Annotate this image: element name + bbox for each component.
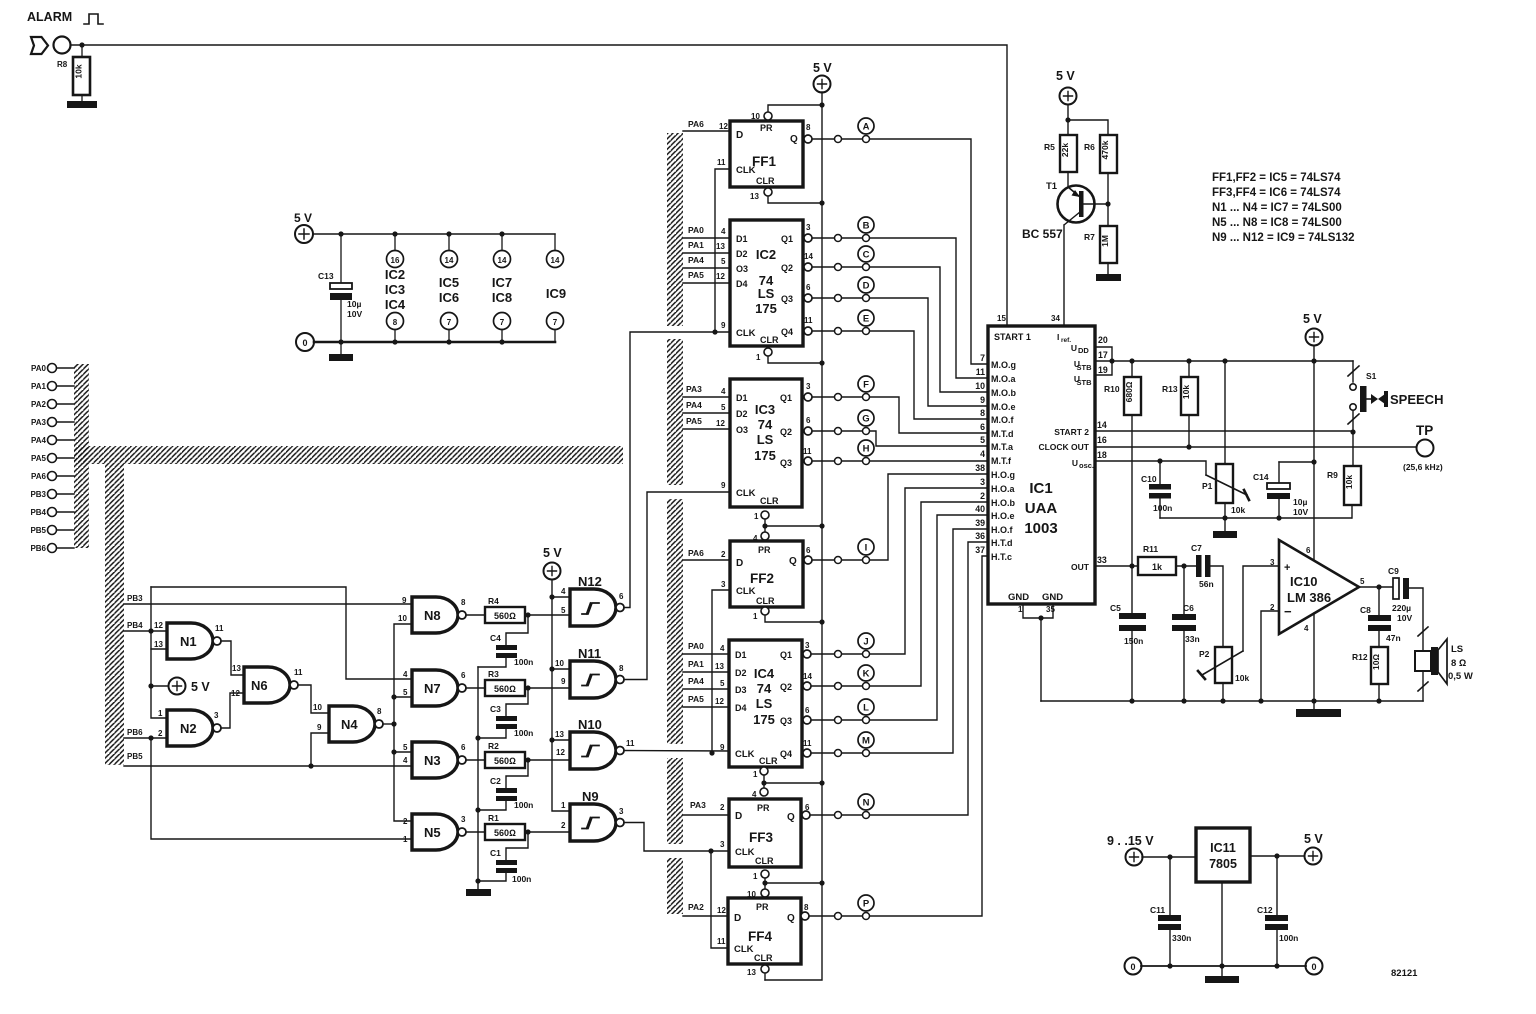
svg-text:R12: R12: [1352, 652, 1368, 662]
wire IC11 output to 5V: [1250, 855, 1305, 857]
wire psu ground rail: [1141, 965, 1306, 967]
svg-text:IC11: IC11: [1210, 841, 1236, 855]
svg-text:220µ: 220µ: [1392, 603, 1411, 613]
svg-text:GND: GND: [1008, 592, 1029, 603]
svg-text:CLK: CLK: [736, 165, 756, 176]
svg-text:17: 17: [1098, 350, 1108, 360]
pin circles IC2/IC3/IC4 supply: [385, 234, 406, 342]
junction C1 ground: [475, 878, 480, 883]
node A: [804, 118, 988, 364]
wire R13 to CLOCK OUT line: [1188, 415, 1190, 447]
svg-text:R10: R10: [1104, 384, 1120, 394]
junction FF2 CLR: [819, 619, 824, 624]
svg-text:N6: N6: [251, 678, 268, 693]
wire FF2 CLR to 5V: [765, 615, 822, 622]
svg-text:CLOCK OUT: CLOCK OUT: [1038, 442, 1089, 452]
ground below capacitor bus: [466, 889, 491, 896]
svg-text:CLK: CLK: [736, 488, 756, 499]
svg-text:PB4: PB4: [127, 621, 143, 630]
node I: [804, 474, 988, 564]
svg-text:PR: PR: [758, 545, 771, 555]
wire FF3 CLK to FF4 CLK: [711, 851, 729, 948]
capacitor C4: [478, 615, 533, 667]
svg-text:4: 4: [980, 449, 985, 459]
svg-text:11: 11: [215, 624, 224, 633]
nand gate N8: [398, 596, 466, 633]
pin circle FF3 CLR pin1: [761, 870, 769, 878]
svg-text:7: 7: [553, 318, 558, 327]
wire PA3 to IC3 D1: [683, 396, 730, 398]
svg-text:M.T.a: M.T.a: [991, 442, 1014, 452]
connector PA0: [31, 364, 74, 374]
svg-text:16: 16: [1097, 435, 1107, 445]
svg-text:1: 1: [756, 353, 761, 362]
wire input to IC11: [1142, 856, 1196, 858]
svg-text:PA6: PA6: [688, 548, 704, 558]
svg-text:STB: STB: [1077, 363, 1093, 372]
svg-text:14: 14: [445, 256, 454, 265]
junction N12 pin4: [549, 594, 554, 599]
svg-text:1: 1: [403, 835, 408, 844]
svg-text:4: 4: [403, 670, 408, 679]
wire R2 to N10 pin12: [525, 759, 570, 761]
resistor R7: [1084, 226, 1117, 263]
svg-text:IC9: IC9: [546, 286, 566, 301]
svg-text:560Ω: 560Ω: [494, 828, 516, 838]
svg-text:M.O.e: M.O.e: [991, 402, 1016, 412]
pin circle FF2 PR pin4: [761, 532, 769, 540]
svg-text:175: 175: [753, 712, 775, 727]
connector PB4: [30, 508, 74, 518]
svg-text:PR: PR: [757, 803, 770, 813]
svg-text:D1: D1: [736, 393, 748, 403]
junction N4 out: [391, 721, 396, 726]
junction IC4 CLR / FF3 PR: [819, 780, 824, 785]
register IC2: [716, 220, 813, 346]
svg-text:9: 9: [317, 723, 322, 732]
junction 5V/USTB: [1311, 358, 1316, 363]
wire N6 out to N4 pin10: [298, 685, 329, 713]
pin circle FF2 CLR pin1: [761, 607, 769, 615]
svg-text:12: 12: [719, 122, 728, 131]
svg-text:C13: C13: [318, 271, 334, 281]
svg-text:ref.: ref.: [1061, 337, 1071, 344]
junction PB6: [148, 735, 153, 740]
svg-text:6: 6: [805, 706, 810, 715]
junction C8 top: [1376, 584, 1381, 589]
svg-text:3: 3: [980, 477, 985, 487]
svg-text:9: 9: [402, 596, 407, 605]
wire FF1 CLR to 5V: [768, 196, 822, 203]
svg-text:Q3: Q3: [781, 294, 793, 304]
svg-text:F: F: [863, 380, 869, 391]
speaker connector slash bottom: [1418, 682, 1428, 691]
capacitor C8: [1360, 587, 1401, 647]
svg-text:1M: 1M: [1100, 235, 1110, 247]
svg-text:4: 4: [720, 644, 725, 653]
svg-text:D: D: [736, 558, 743, 569]
svg-text:3: 3: [720, 840, 725, 849]
svg-text:D3: D3: [735, 685, 747, 695]
svg-text:J: J: [863, 637, 868, 648]
wire OUT pin33 line: [1095, 565, 1138, 567]
junction IC4 CLR/FF3 PR: [761, 780, 766, 785]
wire IC1 GND pins to rail: [1023, 604, 1053, 701]
switch S1: [1348, 361, 1443, 432]
svg-text:Q3: Q3: [780, 458, 792, 468]
svg-text:4: 4: [721, 387, 726, 396]
svg-text:9: 9: [721, 321, 726, 330]
wire PA6 to FF1 D: [683, 130, 730, 132]
pin circle FF4 PR pin10: [761, 889, 769, 897]
junction IC2 CLR: [819, 360, 824, 365]
svg-text:N: N: [863, 798, 870, 809]
svg-text:13: 13: [555, 730, 564, 739]
wire PB4 to N1 pin12: [124, 630, 167, 632]
wire PA0 to IC2 D1: [683, 237, 730, 239]
svg-text:4: 4: [721, 227, 726, 236]
svg-text:11: 11: [976, 367, 985, 377]
svg-text:37: 37: [975, 545, 985, 555]
svg-text:6: 6: [461, 671, 466, 680]
svg-text:5: 5: [980, 435, 985, 445]
svg-text:LS: LS: [757, 432, 774, 447]
svg-text:IC7: IC7: [492, 275, 512, 290]
svg-text:Q2: Q2: [780, 682, 792, 692]
svg-text:osc.: osc.: [1079, 461, 1094, 470]
node J: [803, 488, 988, 658]
note text equivalences: [1212, 172, 1355, 244]
ALARM connector arrow: [31, 37, 48, 54]
svg-text:LM 386: LM 386: [1287, 590, 1331, 605]
svg-text:IC3: IC3: [385, 282, 405, 297]
svg-text:9: 9: [721, 481, 726, 490]
node C: [804, 246, 988, 392]
svg-text:M.O.f: M.O.f: [991, 415, 1014, 425]
svg-text:33: 33: [1097, 555, 1107, 565]
svg-text:10: 10: [975, 381, 985, 391]
svg-text:D4: D4: [736, 279, 748, 289]
svg-text:H.O.e: H.O.e: [991, 511, 1015, 521]
svg-text:H.O.b: H.O.b: [991, 498, 1016, 508]
junction psu rail C11: [1167, 963, 1172, 968]
svg-text:G: G: [862, 414, 869, 425]
svg-text:3: 3: [806, 223, 811, 232]
capacitor C9 (electrolytic): [1388, 566, 1412, 623]
register IC3: [716, 379, 812, 507]
svg-text:10: 10: [555, 659, 564, 668]
svg-text:N2: N2: [180, 721, 197, 736]
flip-flop FF2: [721, 541, 811, 607]
IC1 left pin labels: [991, 360, 1016, 562]
wire audio ground rail: [1041, 700, 1423, 702]
junction psu rail C12: [1274, 963, 1279, 968]
junction USTB/R10: [1129, 358, 1134, 363]
svg-text:D1: D1: [735, 650, 747, 660]
svg-text:1003: 1003: [1024, 520, 1057, 537]
svg-text:N5 ... N8 = IC8 = 74LS00: N5 ... N8 = IC8 = 74LS00: [1212, 217, 1342, 229]
svg-text:Q2: Q2: [780, 427, 792, 437]
svg-text:H.T.c: H.T.c: [991, 552, 1012, 562]
junction C14/5V line: [1311, 459, 1316, 464]
svg-text:100n: 100n: [1153, 503, 1172, 513]
svg-text:CLR: CLR: [754, 953, 773, 963]
svg-text:560Ω: 560Ω: [494, 684, 516, 694]
wire R6 to R7 via T1 base: [1107, 173, 1109, 226]
svg-text:12: 12: [231, 689, 240, 698]
svg-text:PR: PR: [756, 902, 769, 912]
svg-text:M.T.f: M.T.f: [991, 456, 1012, 466]
node L: [803, 515, 988, 724]
svg-text:0: 0: [1130, 962, 1135, 972]
junction C14 bottom: [1276, 515, 1281, 520]
test point TP: [1403, 423, 1443, 472]
node D: [804, 277, 988, 406]
transistor T1 BC557: [1022, 181, 1108, 326]
svg-text:IC1: IC1: [1029, 480, 1052, 497]
svg-text:9: 9: [561, 677, 566, 686]
svg-text:GND: GND: [1042, 592, 1063, 603]
connector PA5: [31, 454, 74, 464]
junction riser N7.5: [391, 694, 396, 699]
svg-text:CLR: CLR: [755, 856, 774, 866]
svg-text:5: 5: [1360, 577, 1365, 586]
svg-text:10µ: 10µ: [347, 299, 361, 309]
svg-text:PB3: PB3: [127, 594, 143, 603]
capacitor C5: [1110, 566, 1146, 701]
junction R13/CLOCK OUT: [1186, 444, 1191, 449]
svg-text:8 Ω: 8 Ω: [1451, 658, 1466, 669]
svg-text:C2: C2: [490, 776, 501, 786]
wire R4 to N12 pin5: [525, 614, 570, 616]
junction IC3 CLR / FF2 PR: [819, 523, 824, 528]
wire PA6 to FF2 D: [683, 559, 730, 561]
wire IC1 pins 20/17/19 bracket: [1095, 347, 1112, 375]
svg-text:12: 12: [716, 272, 725, 281]
wire FF4 CLR to 5V rail bottom: [764, 973, 766, 980]
svg-text:C3: C3: [490, 704, 501, 714]
svg-text:33n: 33n: [1185, 634, 1200, 644]
svg-text:PA5: PA5: [31, 454, 47, 463]
svg-text:7: 7: [447, 318, 452, 327]
svg-text:38: 38: [975, 463, 985, 473]
junction 5V gate: [148, 683, 153, 688]
svg-text:−: −: [1284, 604, 1292, 619]
svg-text:PB6: PB6: [30, 544, 46, 553]
node E: [804, 310, 988, 419]
svg-text:DD: DD: [1078, 346, 1089, 355]
svg-text:B: B: [863, 221, 870, 232]
connector PA1: [31, 382, 74, 392]
5V output terminal: [1304, 832, 1323, 865]
svg-text:N5: N5: [424, 825, 441, 840]
svg-text:10k: 10k: [1181, 385, 1191, 399]
wire feedback net to N7 pin4: [151, 587, 412, 679]
svg-text:C9: C9: [1388, 566, 1399, 576]
svg-text:5 V: 5 V: [191, 680, 210, 694]
pin circle FF1 PR pin10: [764, 112, 772, 120]
node N: [802, 542, 988, 819]
svg-text:8: 8: [619, 664, 624, 673]
svg-text:14: 14: [1097, 420, 1107, 430]
svg-text:PA0: PA0: [688, 225, 704, 235]
junction USTB/R13: [1186, 358, 1191, 363]
resistor R4: [485, 596, 525, 623]
svg-text:12: 12: [716, 419, 725, 428]
bus hatched band middle vertical: [667, 133, 683, 914]
svg-text:100n: 100n: [1279, 933, 1298, 943]
ground below audio rail: [1313, 701, 1315, 709]
svg-text:START 2: START 2: [1054, 427, 1089, 437]
junction C6 top: [1181, 563, 1186, 568]
pin circle FF4 CLR pin13: [761, 965, 769, 973]
svg-text:N7: N7: [424, 681, 441, 696]
svg-text:PA1: PA1: [688, 240, 704, 250]
pin circles IC5/IC6 supply: [439, 234, 459, 342]
svg-text:6: 6: [619, 592, 624, 601]
svg-text:LS: LS: [756, 696, 773, 711]
svg-text:11: 11: [803, 447, 812, 456]
svg-text:5: 5: [721, 257, 726, 266]
svg-text:Q: Q: [787, 812, 795, 823]
svg-text:R6: R6: [1084, 142, 1095, 152]
svg-text:SPEECH: SPEECH: [1390, 392, 1443, 407]
svg-text:U: U: [1071, 343, 1077, 353]
svg-text:11: 11: [803, 739, 812, 748]
svg-text:N9 ... N12 = IC9 = 74LS132: N9 ... N12 = IC9 = 74LS132: [1212, 232, 1355, 244]
resistor R12: [1352, 647, 1388, 701]
svg-text:PB4: PB4: [30, 508, 46, 517]
resistor R6: [1084, 135, 1117, 173]
svg-text:+: +: [1284, 562, 1290, 574]
svg-text:R11: R11: [1143, 544, 1158, 554]
capacitor C3: [478, 688, 533, 738]
svg-text:10V: 10V: [1293, 507, 1308, 517]
wire PB6 down to N5 pin1: [151, 738, 412, 839]
pin circle FF3 PR pin4: [760, 788, 768, 796]
svg-text:Q1: Q1: [781, 234, 793, 244]
wire N7 out to R3: [466, 687, 485, 689]
regulator IC11 7805: [1196, 828, 1250, 882]
nand gate N1: [154, 621, 224, 659]
svg-text:IC3: IC3: [755, 402, 775, 417]
wire R5 to T1 emitter: [1067, 172, 1069, 187]
svg-text:C11: C11: [1150, 905, 1165, 915]
wire R3 to N11 pin9: [525, 687, 570, 689]
capacitor C7: [1191, 543, 1214, 589]
svg-text:PB5: PB5: [30, 526, 46, 535]
wire IC4 CLR / FF3 PR to 5V: [764, 775, 822, 788]
svg-text:Q: Q: [790, 134, 798, 145]
svg-text:FF3: FF3: [749, 830, 773, 845]
svg-text:3: 3: [461, 815, 466, 824]
svg-text:Q1: Q1: [780, 650, 792, 660]
svg-text:Q2: Q2: [781, 263, 793, 273]
svg-text:14: 14: [803, 672, 812, 681]
svg-text:PA4: PA4: [31, 436, 47, 445]
svg-text:CLR: CLR: [760, 335, 779, 345]
svg-text:560Ω: 560Ω: [494, 611, 516, 621]
resistor R9: [1327, 432, 1361, 518]
IC1 right pin numbers: [1097, 335, 1108, 565]
junction GND: [1038, 615, 1043, 620]
nand gate N4: [313, 703, 383, 742]
wire speaker bottom lead: [1422, 671, 1424, 701]
flip-flop FF3: [720, 799, 810, 867]
nand gate N2: [158, 709, 221, 746]
svg-text:5 V: 5 V: [543, 546, 562, 560]
svg-text:5: 5: [561, 606, 566, 615]
svg-text:R3: R3: [488, 669, 499, 679]
svg-text:M: M: [862, 736, 870, 747]
svg-text:PA2: PA2: [31, 400, 47, 409]
wire IC3 CLR / FF2 PR to 5V: [765, 519, 822, 532]
5V terminal (middle column): [813, 61, 832, 93]
wire PB5 to N3 pin4: [124, 765, 412, 767]
junction P1 bottom: [1222, 515, 1227, 520]
svg-text:H.O.a: H.O.a: [991, 484, 1016, 494]
svg-text:IC2: IC2: [756, 247, 776, 262]
junction ALARM/R8: [79, 42, 84, 47]
svg-text:13: 13: [232, 664, 241, 673]
svg-text:FF4: FF4: [748, 929, 772, 944]
svg-text:5 V: 5 V: [1303, 312, 1322, 326]
svg-text:82121: 82121: [1391, 968, 1418, 979]
svg-text:T1: T1: [1046, 181, 1058, 192]
svg-text:3: 3: [214, 711, 219, 720]
connector PB5: [30, 526, 74, 536]
wire N9 out to FF3/FF4 CLK: [624, 823, 729, 852]
junction R3/C3: [525, 685, 530, 690]
wire PA5 to IC2 D4: [683, 282, 730, 284]
svg-text:7: 7: [980, 353, 985, 363]
junction R1/C1: [525, 829, 530, 834]
svg-text:R1: R1: [488, 813, 499, 823]
junction FF1 CLR: [819, 200, 824, 205]
svg-text:10: 10: [751, 112, 760, 121]
svg-text:R9: R9: [1327, 470, 1338, 480]
svg-text:150n: 150n: [1124, 636, 1143, 646]
nand gate N5: [403, 814, 466, 850]
svg-text:N12: N12: [578, 574, 602, 589]
svg-text:13: 13: [154, 640, 163, 649]
svg-text:9 . .15 V: 9 . .15 V: [1107, 834, 1154, 848]
svg-text:74: 74: [757, 681, 772, 696]
junction rail C6: [1181, 698, 1186, 703]
svg-text:U: U: [1072, 458, 1078, 468]
svg-text:M.O.a: M.O.a: [991, 374, 1016, 384]
svg-text:13: 13: [750, 192, 759, 201]
svg-text:PR: PR: [760, 123, 773, 133]
svg-text:2: 2: [721, 550, 726, 559]
capacitor C13: [318, 234, 362, 342]
svg-text:175: 175: [754, 448, 776, 463]
svg-text:12: 12: [717, 906, 726, 915]
wire IC2 CLR to 5V: [768, 356, 822, 363]
ALARM terminal circle: [54, 37, 71, 54]
svg-text:D1: D1: [736, 234, 748, 244]
svg-text:3: 3: [721, 580, 726, 589]
wire IC11 ground lead: [1221, 882, 1223, 976]
wire R1 to N9 pin2: [525, 831, 570, 833]
svg-text:PB6: PB6: [127, 728, 143, 737]
svg-text:8: 8: [377, 707, 382, 716]
5V supply terminal (power section): [294, 211, 313, 243]
wire PA5 to IC4 D4: [683, 706, 729, 708]
svg-text:START 1: START 1: [994, 332, 1031, 342]
svg-text:10V: 10V: [347, 309, 362, 319]
resistor R8: [57, 57, 90, 95]
